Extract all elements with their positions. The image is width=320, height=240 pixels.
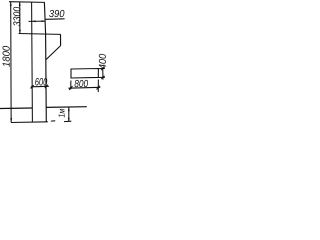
footing bottom break line (11, 121, 48, 124)
corbel top line (19, 33, 61, 36)
dimension line 1m depth (68, 107, 70, 121)
extension 400 bottom (98, 76, 105, 78)
extension 400 top (98, 67, 105, 69)
arrow 1m bottom (68, 118, 70, 122)
column right edge (44, 2, 46, 122)
footing bottom dash (51, 120, 55, 122)
arrow 390 right (42, 20, 46, 22)
arrow 3300 top (19, 2, 21, 6)
label 600 (35, 78, 47, 86)
tick 400 bottom (101, 76, 104, 79)
arrow 1m top (68, 107, 70, 111)
label 3300 (13, 7, 20, 26)
label 800 (75, 80, 89, 87)
corbel diagonal edge (46, 46, 61, 60)
corbel right edge (60, 34, 62, 45)
depth dim bottom extension (64, 120, 71, 122)
dimension line 1800 (10, 2, 12, 123)
ground line left (0, 107, 32, 110)
ground line right (46, 106, 87, 109)
leader 390 (46, 18, 65, 21)
label 1м (58, 109, 64, 117)
label 390 (49, 10, 64, 17)
dimension line 600 (31, 85, 49, 88)
column left edge (31, 2, 34, 122)
dimension line 390 (29, 20, 46, 22)
tick 800 right (97, 86, 100, 90)
tick 800 left (69, 86, 72, 90)
dimension line 800 (68, 86, 100, 89)
arrow 1800 bottom (10, 118, 12, 122)
tick 600 right (45, 85, 48, 88)
extension 800 left (70, 81, 72, 90)
dimension line 3300 (19, 2, 21, 34)
tick 600 left (31, 85, 34, 88)
tick 400 top (101, 67, 104, 70)
wire top extension line (9, 1, 45, 4)
arrow 1800 top (10, 2, 12, 6)
detail rectangle (71, 69, 98, 79)
arrow 3300 bottom (19, 30, 21, 34)
arrow 390 left (32, 20, 36, 22)
label 1800 (3, 46, 10, 67)
extension 800 right (97, 80, 99, 93)
label 400 (99, 54, 106, 69)
dimension line 400 (102, 68, 104, 80)
